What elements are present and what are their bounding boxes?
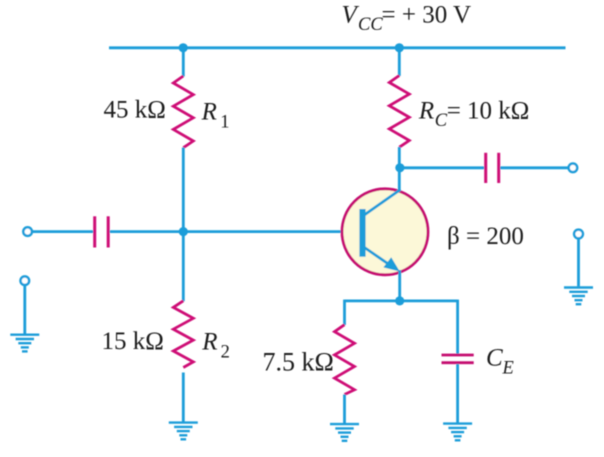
label CE [486, 344, 514, 378]
transistor Q1 circle body [342, 189, 428, 275]
svg-text:CC: CC [358, 15, 383, 35]
transistor Q1 base bar [359, 209, 365, 257]
capacitor CE plates [442, 355, 474, 363]
ground below RE [330, 424, 359, 441]
wire right terminal to ground [577, 238, 580, 286]
wire top VCC rail [109, 46, 566, 49]
wire CE to ground [456, 364, 459, 423]
output terminal circle [569, 164, 578, 173]
wire down to RE [343, 300, 346, 325]
wire input terminal to coupling capacitor [32, 230, 93, 233]
svg-text:1: 1 [220, 113, 229, 133]
svg-text:R: R [201, 328, 217, 355]
input terminal circle [23, 227, 32, 236]
wire collector node to output capacitor [400, 166, 484, 169]
wire RC bottom to collector node [398, 147, 401, 191]
node junction of RC on VCC rail [395, 43, 404, 52]
capacitor output coupling [486, 153, 499, 183]
svg-text:= 10 kΩ: = 10 kΩ [447, 98, 530, 125]
wire capacitor to transistor base [110, 230, 360, 233]
value label RC = 10 kOhm [418, 98, 529, 132]
svg-text:C: C [486, 344, 503, 371]
node base junction dot [179, 227, 188, 236]
wire from R2 bottom to ground [182, 373, 185, 422]
transistor Q1 emitter lead diagonal with arrow [365, 248, 400, 272]
svg-text:E: E [502, 359, 514, 379]
wire down to CE [456, 300, 459, 354]
wire lower terminal to ground [23, 285, 26, 334]
resistor R1 [173, 76, 193, 148]
svg-text:R: R [201, 98, 217, 125]
svg-text:2: 2 [221, 343, 230, 363]
value label 7.5 kOhm [263, 348, 334, 377]
label beta = 200 [447, 223, 524, 250]
node junction of R1 on VCC rail [179, 43, 188, 52]
wire from VCC rail down to R1 [182, 48, 185, 77]
wire RE bottom to ground [343, 395, 346, 424]
resistor R2 [173, 301, 193, 368]
wire emitter from circle down to emitter node [398, 270, 401, 301]
value label 15 kOhm for R2 [102, 328, 164, 355]
ground below right terminal [564, 288, 593, 305]
label R1 [201, 98, 230, 132]
value label 45 kOhm for R1 [104, 96, 166, 123]
label VCC = +30 V [342, 2, 472, 36]
wire from VCC rail down to RC [398, 48, 401, 76]
ground below R2 [169, 423, 198, 440]
transistor Q1 collector lead diagonal [365, 190, 401, 215]
svg-text:R: R [418, 98, 434, 125]
ground below CE [443, 424, 472, 441]
svg-text:= + 30 V: = + 30 V [382, 2, 472, 29]
wire from R1 bottom through base node to R2 top [182, 148, 185, 302]
svg-text:V: V [342, 2, 360, 29]
resistor RE 7.5 kOhm [335, 325, 355, 395]
input lower terminal circle [21, 276, 30, 285]
node emitter junction dot [395, 296, 404, 305]
capacitor input coupling [95, 216, 109, 247]
ground below input terminal [10, 335, 39, 352]
svg-text:7.5 kΩ: 7.5 kΩ [263, 348, 334, 377]
node collector junction dot [395, 163, 404, 172]
right output lower terminal circle [574, 230, 583, 239]
wire emitter horizontal to RE and CE branches [345, 299, 458, 302]
resistor RC [389, 76, 409, 148]
wire output capacitor to output terminal [500, 166, 569, 169]
svg-text:45 kΩ: 45 kΩ [104, 96, 166, 123]
label R2 [201, 328, 230, 362]
svg-text:β = 200: β = 200 [447, 223, 524, 250]
svg-text:15 kΩ: 15 kΩ [102, 328, 164, 355]
